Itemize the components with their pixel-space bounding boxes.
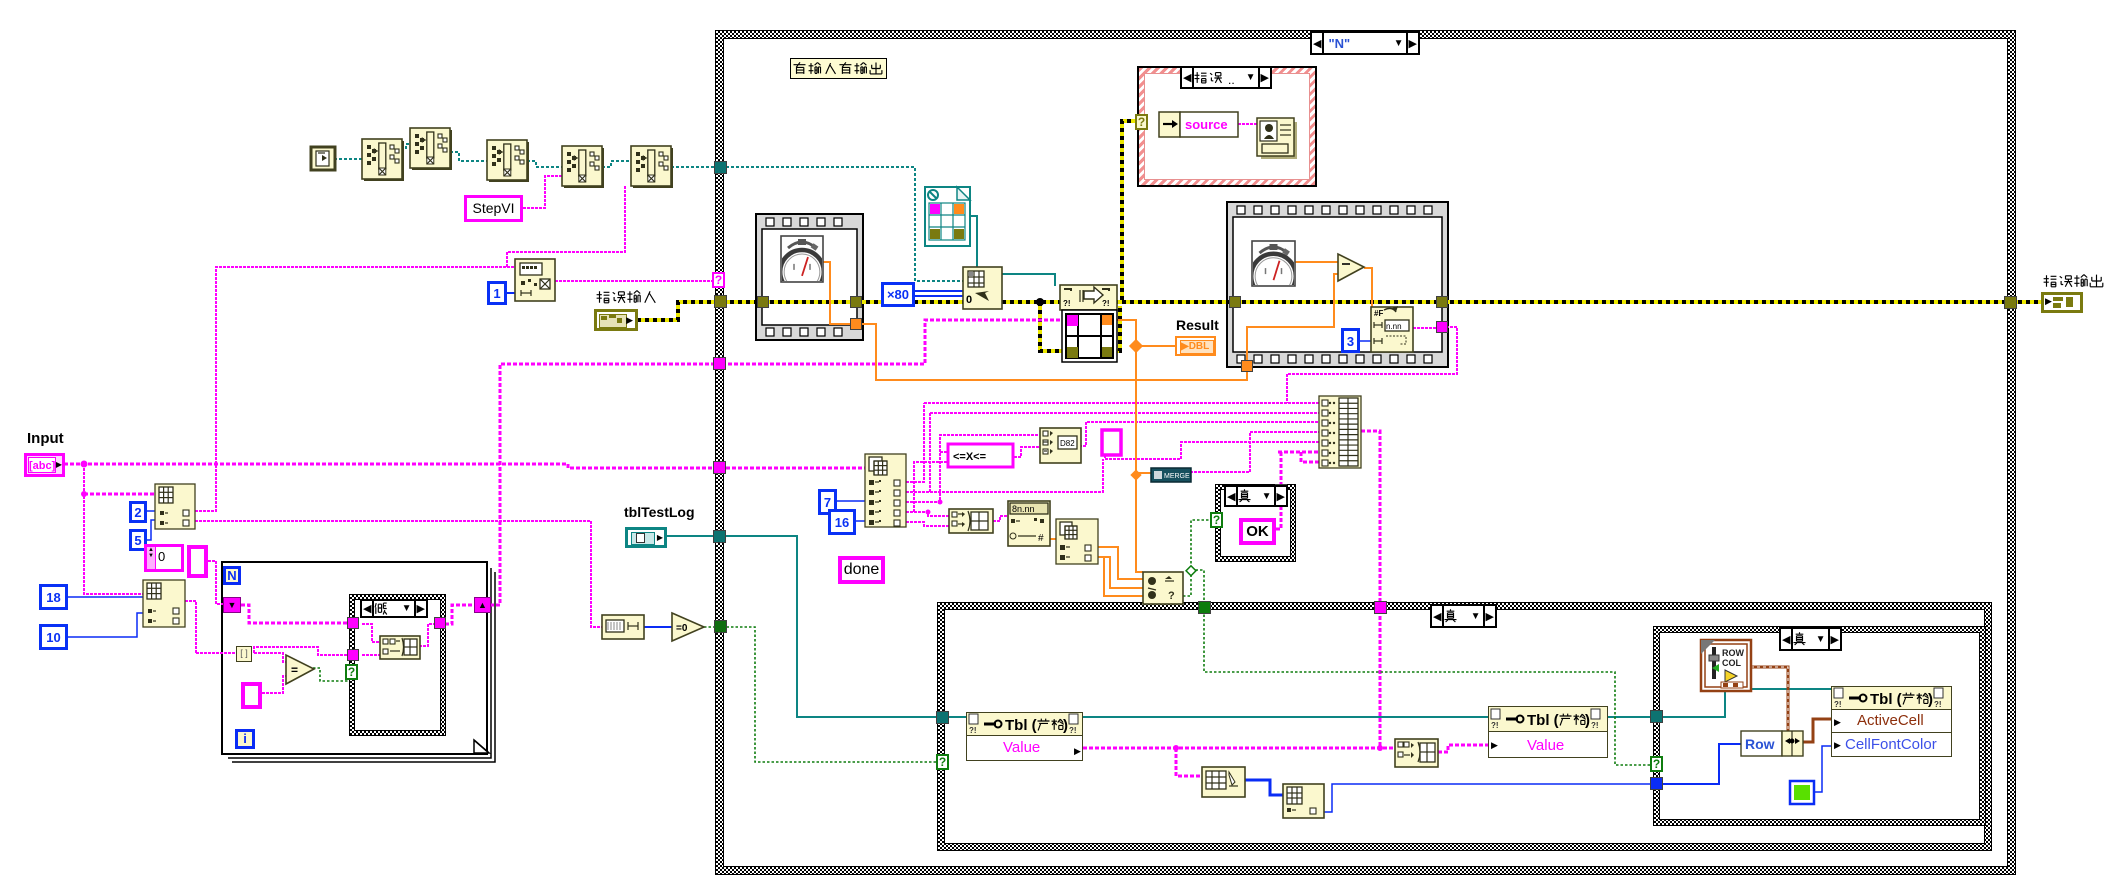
node invoke Tbl ActiveCell CellFontColor (1831, 686, 1952, 757)
wire orange unbundle2 r3 (1104, 557, 1143, 596)
VI icon VI 1 (362, 139, 402, 179)
constant 18 (39, 584, 68, 610)
svg-text:=0: =0 (676, 623, 688, 634)
wire orange seq1 to seq2 (861, 324, 1247, 380)
node array to cluster (1395, 739, 1438, 767)
wire teal tblTestLog run (666, 536, 966, 717)
label selector 真 inner (1779, 627, 1842, 651)
wire teal property node L to C (1083, 716, 1488, 718)
node unbundle 2 (1056, 519, 1098, 564)
constant table (teal) (925, 187, 970, 246)
case structure 真 (big bottom) (937, 602, 1992, 851)
tunnel seq2 orange bottom (1241, 360, 1253, 372)
node string length (602, 615, 644, 639)
tunnel ok case magenta (1275, 484, 1287, 496)
constant 3 (1341, 328, 1360, 353)
constant 16 (828, 509, 856, 535)
tunnel seq2 error R (1436, 296, 1448, 308)
node stopwatch 2 (1252, 241, 1295, 286)
node comparison diamonds (1143, 572, 1183, 604)
node stopwatch 1 (781, 236, 823, 282)
wire blue 18 const (68, 596, 143, 598)
junction orange result (1129, 339, 1143, 353)
selector OK case ? (1210, 512, 1223, 528)
wire orange unbundle2 r1 (1098, 547, 1143, 579)
constant x80 (881, 282, 915, 307)
terminal tblTestLog (624, 504, 695, 520)
wire teal VI chain 3-4 (527, 161, 562, 167)
wire magenta loop inner jog upper (254, 647, 350, 655)
wire magenta in-case to build icon (362, 624, 380, 642)
node unbundle by name 1 (865, 454, 906, 527)
wire magenta a2c out to Value C (1438, 745, 1488, 752)
wire error branch under merge node (error cluster) (1040, 302, 1120, 351)
svg-text:?!: ?! (1102, 299, 1110, 308)
node unbundle source (1159, 112, 1180, 137)
node bundle (1782, 731, 1803, 756)
constant 2 (129, 501, 147, 523)
VI icon VI 4 (562, 146, 602, 186)
svg-text:Row: Row (1745, 736, 1775, 752)
VI icon VI 3 (487, 140, 527, 180)
shift register right (474, 597, 491, 613)
constant 10 (39, 624, 68, 650)
wire magenta Value L run (1083, 747, 1395, 750)
VI icon VI 5 (631, 146, 671, 186)
node index array 1 (155, 484, 195, 529)
tunnel seq1 orange (850, 318, 862, 330)
terminal 错误输入 (594, 309, 638, 331)
wire green equals out (313, 668, 349, 681)
node concatenate strings (949, 509, 993, 533)
node in range and coerce (948, 444, 1013, 467)
wire magenta unbundle to concat a (906, 512, 949, 516)
svg-text:?!: ?! (1063, 299, 1071, 308)
VI icon VI 2 (410, 128, 450, 168)
wire orange to result dbl (1136, 345, 1175, 347)
tunnel seq1 error L (757, 296, 769, 308)
terminal i (235, 729, 255, 749)
wire magenta Input branch to index1 (84, 493, 155, 496)
wire magenta Input branch down (84, 464, 143, 594)
wire teal property node C to inner case (1608, 691, 1725, 717)
wire blue 16 const (856, 520, 865, 522)
wire green branch to big case tunnel (1191, 570, 1204, 606)
tunnel magenta array in (713, 357, 726, 370)
terminal 错误输出 (2041, 292, 2083, 313)
tunnel magenta Input (713, 461, 726, 474)
wire magenta case out to shiftreg right (445, 605, 474, 624)
wire orange stopwatch1 down (822, 262, 851, 324)
node number to fractional string (1008, 501, 1050, 546)
label 有输入有输出 (790, 58, 887, 79)
wire teal VI chain into case (671, 167, 963, 281)
constant 1 (487, 281, 507, 305)
wire teal VI chain 2-3 (450, 152, 487, 161)
label selector 错误.. (1180, 66, 1272, 89)
case structure 真 (OK small) (1215, 484, 1296, 562)
wire orange stopwatch2 to sub (1295, 261, 1338, 263)
junction input wire (81, 461, 88, 468)
tunnel seq2 error L (1229, 296, 1241, 308)
node equal to 0 (672, 613, 704, 641)
svg-text:8n.nn: 8n.nn (1012, 504, 1035, 514)
wire magenta stair5 to inrange2 (906, 462, 948, 512)
node equal (286, 655, 314, 684)
node merge/compare table (1060, 285, 1117, 310)
constant frame pink 1 (187, 545, 208, 578)
svg-text:=: = (291, 663, 298, 677)
node create table (963, 267, 1002, 309)
wire magenta fan row4 from badge (1190, 432, 1319, 472)
wire orange unbundle2 r2 (1098, 557, 1143, 588)
wire blue 7 const (837, 500, 865, 502)
node format time string (1371, 307, 1413, 352)
constant 7 (818, 489, 837, 515)
svg-text:MERGE: MERGE (1164, 473, 1190, 480)
constant frame pink loop (241, 682, 262, 709)
wire magenta loop tunnel run (196, 652, 236, 654)
wire teal table const to init (970, 216, 977, 267)
wire magenta case inner run to merge table (722, 320, 1062, 364)
label 错误输出 (2044, 275, 2057, 287)
wire green eq0 out (704, 626, 716, 628)
svg-text:#: # (1038, 533, 1044, 544)
wire magenta r2 long to frame (930, 459, 1103, 492)
selector loop case ? (345, 664, 358, 680)
wire magenta StepVI to VI4 (523, 176, 562, 208)
wire blue grid2 out long (1324, 784, 1654, 812)
selector error case ? (1135, 114, 1148, 130)
constant empty string (center) (1102, 430, 1121, 455)
wire magenta stair4 to inrange (940, 451, 948, 453)
wire teal VI chain 0-1 (334, 158, 362, 160)
svg-text:<=X<=: <=X<= (953, 451, 986, 463)
node index array 2 (143, 580, 185, 627)
wire magenta OK to tunnel (1276, 452, 1281, 529)
wire blue 10 const (68, 613, 143, 637)
terminal DBL (1175, 336, 1216, 356)
wire error up to error-case selector (error cluster) (1122, 121, 1137, 300)
label Tbl header R (1834, 688, 1843, 698)
terminal Input (27, 430, 64, 447)
wire magenta frame to equals in2 (262, 676, 286, 693)
wire magenta fan row1 (924, 402, 1319, 404)
selector case ? magenta (712, 272, 725, 288)
wire magenta queue to VI5 (507, 186, 625, 267)
wire magenta fan row7 branch (1301, 452, 1319, 462)
svg-text:COL: COL (1722, 658, 1742, 668)
wire orange seq2 inner up (1247, 274, 1338, 361)
constant StepVI (464, 195, 523, 222)
wire magenta fan row3 from convert (1079, 422, 1319, 446)
tunnel teal tblTestLog (713, 530, 726, 543)
wire green compare out (1183, 520, 1211, 596)
node index grid 2 (1283, 784, 1324, 818)
label Tbl header L (969, 714, 978, 724)
node error dialog icon (1261, 122, 1297, 159)
wire magenta to equals in1 (254, 653, 286, 662)
tunnel loop case L1 magenta (347, 617, 359, 629)
wire blue in case2 to Row (1663, 744, 1741, 784)
node obtain queue (515, 259, 555, 301)
svg-text:n.nn: n.nn (1386, 322, 1402, 331)
svg-text:0: 0 (966, 294, 972, 306)
wire magenta seq2 out loopback (1287, 327, 1457, 403)
wire green eq0 to big case (722, 627, 937, 762)
wire blue x80 out b (915, 295, 963, 297)
tunnel inner case teal (1650, 710, 1663, 723)
tunnel error out (2004, 296, 2017, 309)
wire teal init to merge node (1002, 274, 1055, 286)
label selector 真 big (1430, 604, 1497, 628)
wire error main run (error cluster) (722, 300, 2046, 304)
wire orange badge stub (1136, 472, 1152, 474)
wire teal VI chain 1-2 (401, 144, 410, 149)
wire magenta fmt to tunnel (1413, 327, 1446, 329)
wire blue setcell out (1245, 780, 1283, 795)
junction error wire (1036, 298, 1044, 306)
label Result (1176, 317, 1219, 333)
selector big case ? (936, 754, 949, 770)
wire magenta concat to 8nnn (993, 516, 1008, 521)
tunnel big case teal left (936, 711, 949, 724)
wire magenta shiftreg right up run (490, 364, 716, 605)
wire magenta ring to shiftreg (208, 561, 223, 604)
svg-text:D82: D82 (1060, 439, 1075, 448)
label selector 真 OK (1224, 485, 1288, 507)
constant OK (1239, 518, 1276, 545)
wire blue green-const to cellfontcolor (1813, 746, 1831, 792)
wire magenta index1 up to queue icon (195, 267, 515, 511)
wire blue 3 const (1360, 340, 1371, 342)
constant ring 0 (144, 544, 184, 572)
VI icon small file (311, 147, 335, 170)
wire magenta queue out to case selector (555, 280, 714, 282)
tunnel error in (714, 295, 727, 308)
wire magenta index1 out2 to strlen (195, 521, 602, 627)
tunnel loop case L2 magenta (347, 649, 359, 661)
tunnel big case magenta top (1374, 601, 1387, 614)
wire magenta fan row6 from OK (1278, 451, 1319, 454)
wire brown dash overlay (1751, 667, 1788, 731)
wire magenta inrange out to convert (1014, 447, 1039, 457)
tunnel teal in (VI chain) (714, 161, 727, 174)
wire magenta stair3 to convert (906, 435, 1039, 502)
wire orange merge table out (1115, 320, 1143, 572)
node flatten/convert (1040, 428, 1081, 463)
constant 5 (129, 529, 147, 551)
node ROW COL VI (1701, 640, 1751, 691)
wire magenta index2 to loop (185, 601, 196, 653)
wire magenta multiindex out down (1361, 431, 1380, 748)
wire magenta stair1 (906, 403, 924, 482)
wire magenta Input main run (64, 464, 865, 468)
node table indicator part (1062, 310, 1117, 362)
tunnel big case green top (1198, 601, 1211, 614)
wire magenta build icon out (419, 624, 434, 646)
wire magenta shiftreg to case tunnel (241, 605, 350, 623)
label selector 假 loop (360, 599, 428, 618)
tunnel seq2 magenta out (1436, 321, 1448, 333)
wire blue 5 const (147, 520, 155, 540)
node build array (loop case) (380, 636, 420, 659)
wire magenta fan row5 from frame (1105, 442, 1319, 459)
tunnel loop case R magenta (434, 617, 446, 629)
tunnel loop autoindex (236, 646, 252, 662)
node source text (1180, 112, 1238, 137)
tunnel inner case blue (1650, 777, 1663, 790)
svg-text:ROW: ROW (1722, 648, 1745, 658)
label 错误输入 (597, 291, 610, 303)
wire magenta fan row2 (930, 412, 1319, 414)
junction magenta stair (926, 510, 931, 515)
wire blue strlen to eq0 (644, 626, 672, 628)
node set cell (1202, 767, 1245, 797)
wire orange 8nnn out (1050, 538, 1056, 540)
node convert to dynamic data (1151, 468, 1191, 482)
svg-text:source: source (1185, 117, 1228, 132)
wire blue 1 const (507, 292, 515, 294)
node subtract (1338, 254, 1364, 281)
wire magenta Value branch to setcell (1176, 748, 1202, 776)
node property Tbl Value (left) (966, 712, 1083, 761)
wire magenta stair2 (906, 413, 930, 492)
constant done (838, 556, 885, 584)
wire orange sub to fmt (1364, 268, 1372, 307)
node property Tbl Value (center) (1488, 706, 1608, 758)
wire blue x80 out a (915, 290, 963, 292)
label selector "N" (1310, 31, 1420, 55)
error case structure 错误 (1137, 66, 1317, 187)
junction green (1186, 566, 1196, 576)
case structure "N" (outer) (715, 30, 2016, 875)
tunnel seq1 error R (850, 296, 862, 308)
constant green color (1790, 781, 1814, 804)
wire error input to border (error cluster) (637, 302, 716, 320)
wire green inside big case (1204, 610, 1651, 765)
node index array (8 outputs) (1319, 396, 1361, 468)
wire magenta case2 tunnel to icon (362, 654, 380, 656)
selector inner case ? (1650, 756, 1663, 772)
wire magenta unbundle to concat b (906, 522, 949, 526)
wire teal rowcol to invoke node (1751, 688, 1831, 690)
svg-text:?: ? (1168, 590, 1175, 602)
svg-text:#F: #F (1374, 309, 1383, 318)
case structure 假 (in loop) (349, 594, 446, 736)
wire brown rowcol to bundle (1751, 667, 1788, 731)
constant Row (1741, 731, 1782, 756)
wire magenta source wire (1238, 123, 1257, 125)
wire teal VI chain 4-5 (602, 161, 631, 167)
case structure 真 (inner right) (1653, 626, 1986, 826)
wire blue 2 const (147, 510, 155, 512)
label Tbl header C (1491, 709, 1500, 719)
shift register left (223, 597, 241, 613)
wire brown bundle to activecell (1803, 719, 1831, 742)
terminal N (223, 566, 241, 585)
tunnel green eq0 (714, 620, 727, 633)
